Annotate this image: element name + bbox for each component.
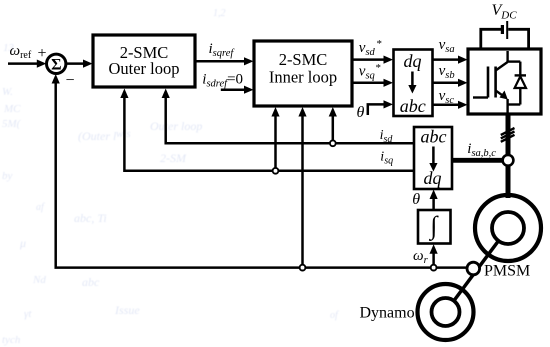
three-phase slash marks [501,128,515,142]
svg-text:of: of [330,310,339,321]
block 2-SMC Inner loop [254,41,352,106]
block integrator [418,210,451,244]
battery V_DC [492,2,518,39]
wire i_sq feedback abc-dq to outer loop [120,89,414,171]
block 2-SMC Outer loop [93,35,195,87]
block dq to abc transform U-dq2abc [394,50,433,117]
machine Dynamo [418,284,474,340]
svg-text:1,2: 1,2 [213,8,226,19]
svg-text:*: * [377,38,383,50]
node junction omega_r inner [300,265,306,271]
svg-text:Inner loop: Inner loop [269,68,337,87]
svg-text:(Outer l: (Outer l [78,129,117,143]
svg-text:dq: dq [424,168,442,188]
svg-text:Nd: Nd [32,274,46,286]
svg-text:Issue: Issue [114,303,140,317]
wire v_sc dq-abc to inverter [433,101,468,109]
svg-text:af: af [36,202,45,213]
node shaft coupling [467,262,480,275]
wire i_sq branch to inner loop [271,107,279,171]
wire v_sq* inner loop to dq-abc [352,79,393,87]
node junction i_sq [273,168,279,174]
DC supply wire [481,29,529,49]
wire i_sd feedback abc-dq to outer loop [162,89,414,144]
node current sensor on phase line [503,155,514,166]
wire integrator to abc-dq theta [430,190,438,211]
wire v_sb dq-abc to inverter [433,79,468,87]
svg-text:abc, Ti: abc, Ti [74,211,107,225]
svg-text:MC: MC [3,103,21,115]
wire three-phase line inverter to PMSM [506,114,511,198]
wire omega_r into integrator [430,244,438,267]
svg-text:2-SM: 2-SM [160,151,187,165]
svg-text:Outer loop: Outer loop [150,119,202,133]
svg-text:W.: W. [2,86,13,98]
svg-text:μ: μ [19,236,26,250]
wire omega_ref input [8,60,46,68]
svg-text:−: − [66,72,75,89]
wire summing junction to outer loop [66,60,93,68]
svg-text:abc: abc [400,96,426,116]
node junction omega_r integrator [431,265,437,271]
wire v_sa dq-abc to inverter [433,56,468,64]
svg-text:2-SMC: 2-SMC [279,50,328,69]
svg-text:Σ: Σ [51,57,61,74]
svg-text:5M(: 5M( [2,118,22,130]
IGBT Q1 inside inverter [473,51,508,114]
svg-text:θ: θ [357,104,365,121]
summing junction S1 [47,54,66,73]
wire i_sqref outer loop to inner loop [195,57,254,65]
wire theta stub into dq-abc [368,100,393,115]
freewheel diode D1 inside inverter [508,62,526,105]
motor PMSM [475,195,541,261]
svg-text:Dynamo: Dynamo [360,305,415,322]
svg-text:PMSM: PMSM [484,263,530,280]
svg-text:dq: dq [404,51,422,71]
block abc to dq transform U-abc2dq [414,127,452,190]
svg-text:Outer loop: Outer loop [108,59,179,78]
shaft PMSM to Dynamo [446,228,509,312]
svg-text:abc: abc [82,275,100,289]
wire speed feedback to summing junction [52,74,468,268]
svg-text:abc: abc [421,127,447,147]
svg-text:θ: θ [412,191,420,208]
wire omega_r branch to inner loop [298,107,306,268]
svg-text:+: + [38,45,47,62]
svg-text:tych: tych [2,334,21,346]
svg-text:by: by [2,170,13,182]
wire v_sd* inner loop to dq-abc [352,56,393,64]
node junction i_sd [330,140,336,146]
wire i_sdref=0 input to inner loop [221,86,254,94]
wire i_sabc current measurement tap [452,158,503,163]
block inverter U-inv [468,49,541,114]
svg-text:*: * [376,62,382,74]
wire i_sd branch to inner loop [329,107,337,143]
svg-text:γt: γt [24,308,32,320]
